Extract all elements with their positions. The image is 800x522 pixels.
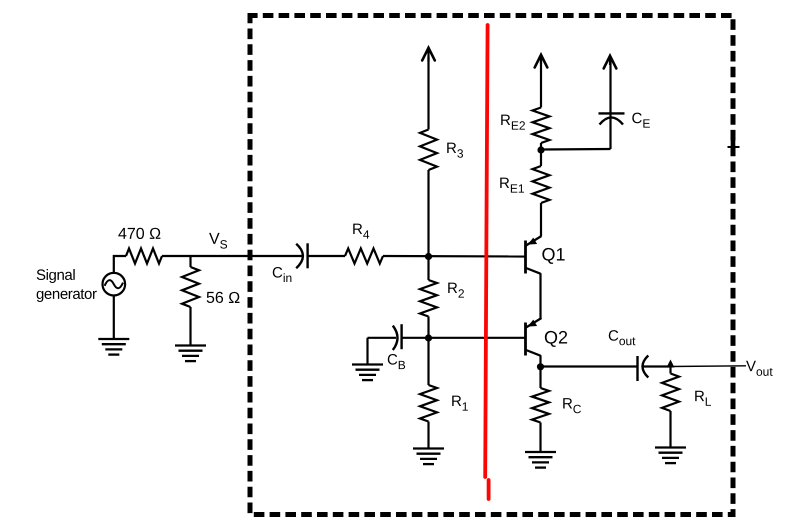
svg-text:470 Ω: 470 Ω bbox=[118, 226, 161, 243]
svg-text:56 Ω: 56 Ω bbox=[206, 290, 240, 307]
svg-text:Signal: Signal bbox=[36, 267, 75, 284]
svg-text:R2: R2 bbox=[447, 280, 465, 301]
svg-text:Q2: Q2 bbox=[544, 328, 568, 348]
svg-text:Cout: Cout bbox=[608, 328, 636, 349]
svg-text:CB: CB bbox=[387, 351, 406, 372]
svg-text:Q1: Q1 bbox=[541, 245, 565, 265]
svg-text:CE: CE bbox=[632, 110, 651, 131]
svg-text:Vout: Vout bbox=[746, 358, 773, 379]
svg-text:RC: RC bbox=[562, 396, 582, 417]
svg-text:VS: VS bbox=[209, 231, 228, 252]
svg-text:RE1: RE1 bbox=[499, 175, 525, 196]
svg-text:generator: generator bbox=[36, 286, 97, 303]
svg-text:RL: RL bbox=[694, 388, 712, 409]
svg-text:R4: R4 bbox=[352, 221, 370, 242]
svg-text:Cin: Cin bbox=[272, 264, 292, 285]
svg-text:RE2: RE2 bbox=[500, 112, 526, 133]
svg-text:R3: R3 bbox=[446, 140, 464, 161]
svg-text:R1: R1 bbox=[451, 393, 469, 414]
